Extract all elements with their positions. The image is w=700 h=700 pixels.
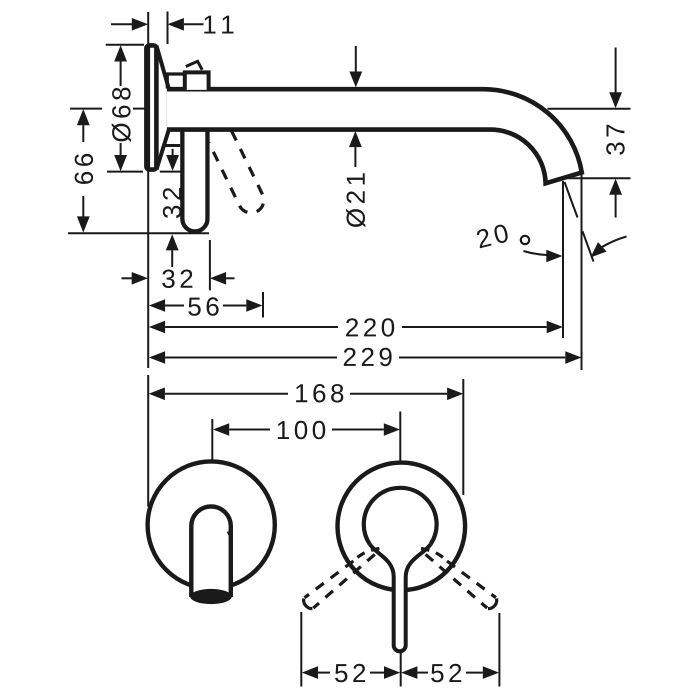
angle 20: right arrow <box>591 242 607 257</box>
dimension 220: left arrow <box>149 321 165 334</box>
dimension 32 vertical: top arrow <box>166 155 179 171</box>
right escutcheon (front view) <box>338 463 466 591</box>
dimension 32 horizontal: left tail <box>122 277 132 279</box>
dimension 32 vertical: label <box>163 188 182 218</box>
dimension 52 left: label <box>335 664 365 683</box>
dimension 66: bottom arrow <box>77 216 90 232</box>
spout front view outlet ellipse <box>190 589 232 604</box>
lever knob circle (front view) <box>364 488 437 544</box>
dimension 229: left arrow <box>149 351 165 364</box>
dimension 11: extension line at escutcheon face <box>167 12 169 45</box>
dimension 32 horizontal: right extension line <box>209 240 211 290</box>
dimension 52 right: right line <box>466 672 483 674</box>
dimension O68: label <box>112 88 131 142</box>
dimension O21: upper tail <box>355 46 357 72</box>
dimension 100: right line <box>332 429 384 431</box>
cartridge housing above spout <box>185 72 209 90</box>
escutcheon wall plate (side view) <box>146 45 156 169</box>
dimension 52 left: left arrow <box>302 666 318 679</box>
cartridge step above spout <box>167 74 183 89</box>
dimension 52 right: left arrow <box>401 666 417 679</box>
dimension O68: upper line <box>120 62 122 87</box>
dimension 229: left line <box>165 357 337 359</box>
lever shaft with trumpet fillets (front view) <box>370 544 431 651</box>
dimension O21: up arrow <box>349 131 362 147</box>
dashed lever position left: lower edge <box>313 554 375 608</box>
dimension 52 left: right arrow <box>384 666 400 679</box>
dimension 37: top arrow <box>609 92 622 108</box>
dimension 32 vertical: top tick <box>172 149 174 155</box>
dimension O68: lower line <box>120 143 122 155</box>
angle 20: left leader <box>524 251 547 255</box>
dimension 168: left line <box>165 393 288 395</box>
dimension 32 vertical: bottom arrow <box>166 234 179 250</box>
dimension 37: bottom arrow <box>609 179 622 195</box>
dimension 52 right: label <box>431 664 461 683</box>
dimension 66: top extension segment b <box>133 108 146 110</box>
escutcheon cone (side view) <box>157 46 169 170</box>
dashed lever position right: trumpet <box>421 549 447 562</box>
dimension 229: right arrow <box>565 351 581 364</box>
dimension 52 left: left line <box>318 672 330 674</box>
dimension 56: right arrow <box>246 299 262 312</box>
escutcheon wall plate left bar thickening <box>148 47 151 168</box>
dimension 11: tail right <box>184 23 204 25</box>
dimension 220: right line <box>402 326 547 328</box>
dimension 66: top extension segment a <box>70 108 102 110</box>
dimension 220: label <box>346 318 394 337</box>
dimension 168: right arrow <box>447 388 463 401</box>
dashed lever position right: lower edge <box>426 554 488 608</box>
dimension 100: right extension line <box>399 412 401 462</box>
dimension 37: top tail <box>615 48 617 93</box>
dimension O68: bottom arrow <box>114 155 127 171</box>
angle 20: label <box>476 223 510 248</box>
spout front view tube <box>191 506 231 597</box>
dimension 66: top arrow <box>77 109 90 125</box>
dimension 56: label <box>188 297 218 316</box>
dimension 220: right arrow <box>547 321 563 334</box>
dimension 52 mid: extension line <box>400 652 402 687</box>
dimension 52 right: extension line <box>498 613 500 687</box>
faucet handle lever (side view) <box>182 129 207 231</box>
dimension 100: left extension line <box>211 419 213 462</box>
angle 20: degree circle <box>521 236 529 244</box>
dimension 56: left arrow <box>149 299 165 312</box>
dimension 37: top extension line <box>548 108 631 110</box>
dimension O68: top extension line <box>106 44 144 46</box>
dimension 56: right extension line <box>262 292 264 318</box>
dimension 56: left line <box>165 305 184 307</box>
handle collar line below spout <box>164 144 180 147</box>
dimension 66: lower line <box>82 196 84 217</box>
vertical reference line at spout tip <box>562 181 564 338</box>
angle 20: right leader <box>602 237 627 248</box>
dimension 168: left arrow <box>149 388 165 401</box>
dimension O68: bottom extension line left <box>107 171 143 173</box>
dashed lever position left: end cap <box>304 599 313 609</box>
dimension 11: label <box>204 16 233 34</box>
dimension 168: right extension line <box>462 379 464 495</box>
dimension 100: left arrow <box>213 423 229 436</box>
spout (side view) <box>167 89 582 183</box>
angle 20: left arrow <box>546 250 562 263</box>
dashed lever position right: upper edge <box>447 561 496 598</box>
spout front view inner tick <box>228 532 231 538</box>
dimension 52 left: extension line <box>300 612 302 687</box>
dimension 220: left line <box>165 326 338 328</box>
dimension 229: right line <box>399 357 565 359</box>
dimension 32 horizontal: label <box>162 270 192 289</box>
dimension 11: tail left <box>111 23 132 25</box>
dimension 37: bottom tail <box>615 194 617 217</box>
dimension 100: right arrow <box>384 423 400 436</box>
spout tip extension line for 229 <box>581 172 583 370</box>
dimension 229: label <box>344 348 392 367</box>
temperature pin above housing <box>186 61 202 70</box>
left escutcheon (front view) <box>148 461 275 588</box>
dimension 52 right: right arrow <box>483 666 499 679</box>
dimension 100: left line <box>229 429 270 431</box>
dimension 168: label <box>296 384 343 403</box>
dimension O68: bottom extension line right <box>160 171 182 173</box>
dimension O21: label <box>346 173 365 227</box>
dimension 52 right: left line <box>417 672 428 674</box>
dimension 32 vertical: bottom tail <box>171 250 173 267</box>
dimension O21: lower tail <box>354 147 356 167</box>
dimension 11: left arrow <box>132 18 148 31</box>
dimension 66: label <box>75 154 94 184</box>
dimension 66: bottom extension line <box>68 232 209 234</box>
dimension 56: right line <box>223 305 246 307</box>
dimension 11: right arrow <box>168 18 184 31</box>
dimension 66: upper line <box>82 125 84 142</box>
handle lever alternate position (dashed) <box>209 131 264 213</box>
wall extension line (bottom figure) <box>147 375 149 507</box>
wall extension line (top figure) <box>147 12 149 368</box>
dimension 37: bottom extension line <box>568 177 631 179</box>
dimension 32 horizontal: right arrow <box>210 272 226 285</box>
dashed lever position left: upper edge <box>305 561 354 598</box>
dimension 32 horizontal: right tail <box>226 277 234 279</box>
dimension 37: label <box>606 125 625 155</box>
dimension O21: down arrow <box>349 72 362 88</box>
dimension 100: label <box>278 421 325 440</box>
20 degree line segment b <box>583 231 594 261</box>
20 degree line segment a <box>565 182 578 218</box>
dimension 168: right line <box>350 393 447 395</box>
dimension O68: top arrow <box>114 45 127 61</box>
dimension 52 left: right line <box>370 672 384 674</box>
dashed lever position left: trumpet <box>353 549 379 562</box>
dimension 32 horizontal: left arrow <box>132 272 148 285</box>
dashed lever position right: end cap <box>488 599 497 609</box>
